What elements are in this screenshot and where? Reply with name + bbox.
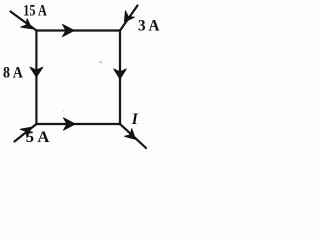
current arrow on right wire (downward) (114, 69, 126, 79)
arrowhead 5 A (pointing up-right into corner) (20, 127, 31, 137)
wire bottom (36, 123, 120, 125)
lead 15 A diagonal into top-left corner (11, 12, 37, 31)
wire top (36, 29, 120, 31)
svg-text:15 A: 15 A (23, 2, 47, 19)
svg-text:8 A: 8 A (3, 65, 24, 82)
wire square loop (36, 31, 120, 125)
arrowhead 15 A (pointing down-right into corner) (21, 19, 32, 29)
current arrow on top wire (rightward) (63, 24, 75, 36)
scan speck (99, 62, 102, 64)
current arrow 8 A on left wire (downward) (30, 67, 43, 77)
scan speck 2 (63, 111, 65, 112)
arrowhead 3 A (pointing down-left toward corner) (125, 11, 135, 22)
svg-text:I: I (131, 111, 139, 128)
wire right (119, 31, 121, 125)
lead I diagonal out of bottom-right corner (120, 124, 146, 148)
svg-text:3 A: 3 A (138, 17, 160, 34)
svg-text:5 A: 5 A (26, 129, 50, 146)
current arrow on bottom wire (rightward) (64, 118, 76, 130)
lead 3 A diagonal from top-right corner (120, 6, 138, 31)
lead 5 A diagonal into bottom-left corner (15, 124, 37, 142)
arrowhead I (pointing down-right away from corner) (125, 129, 136, 140)
wire left (35, 31, 37, 125)
